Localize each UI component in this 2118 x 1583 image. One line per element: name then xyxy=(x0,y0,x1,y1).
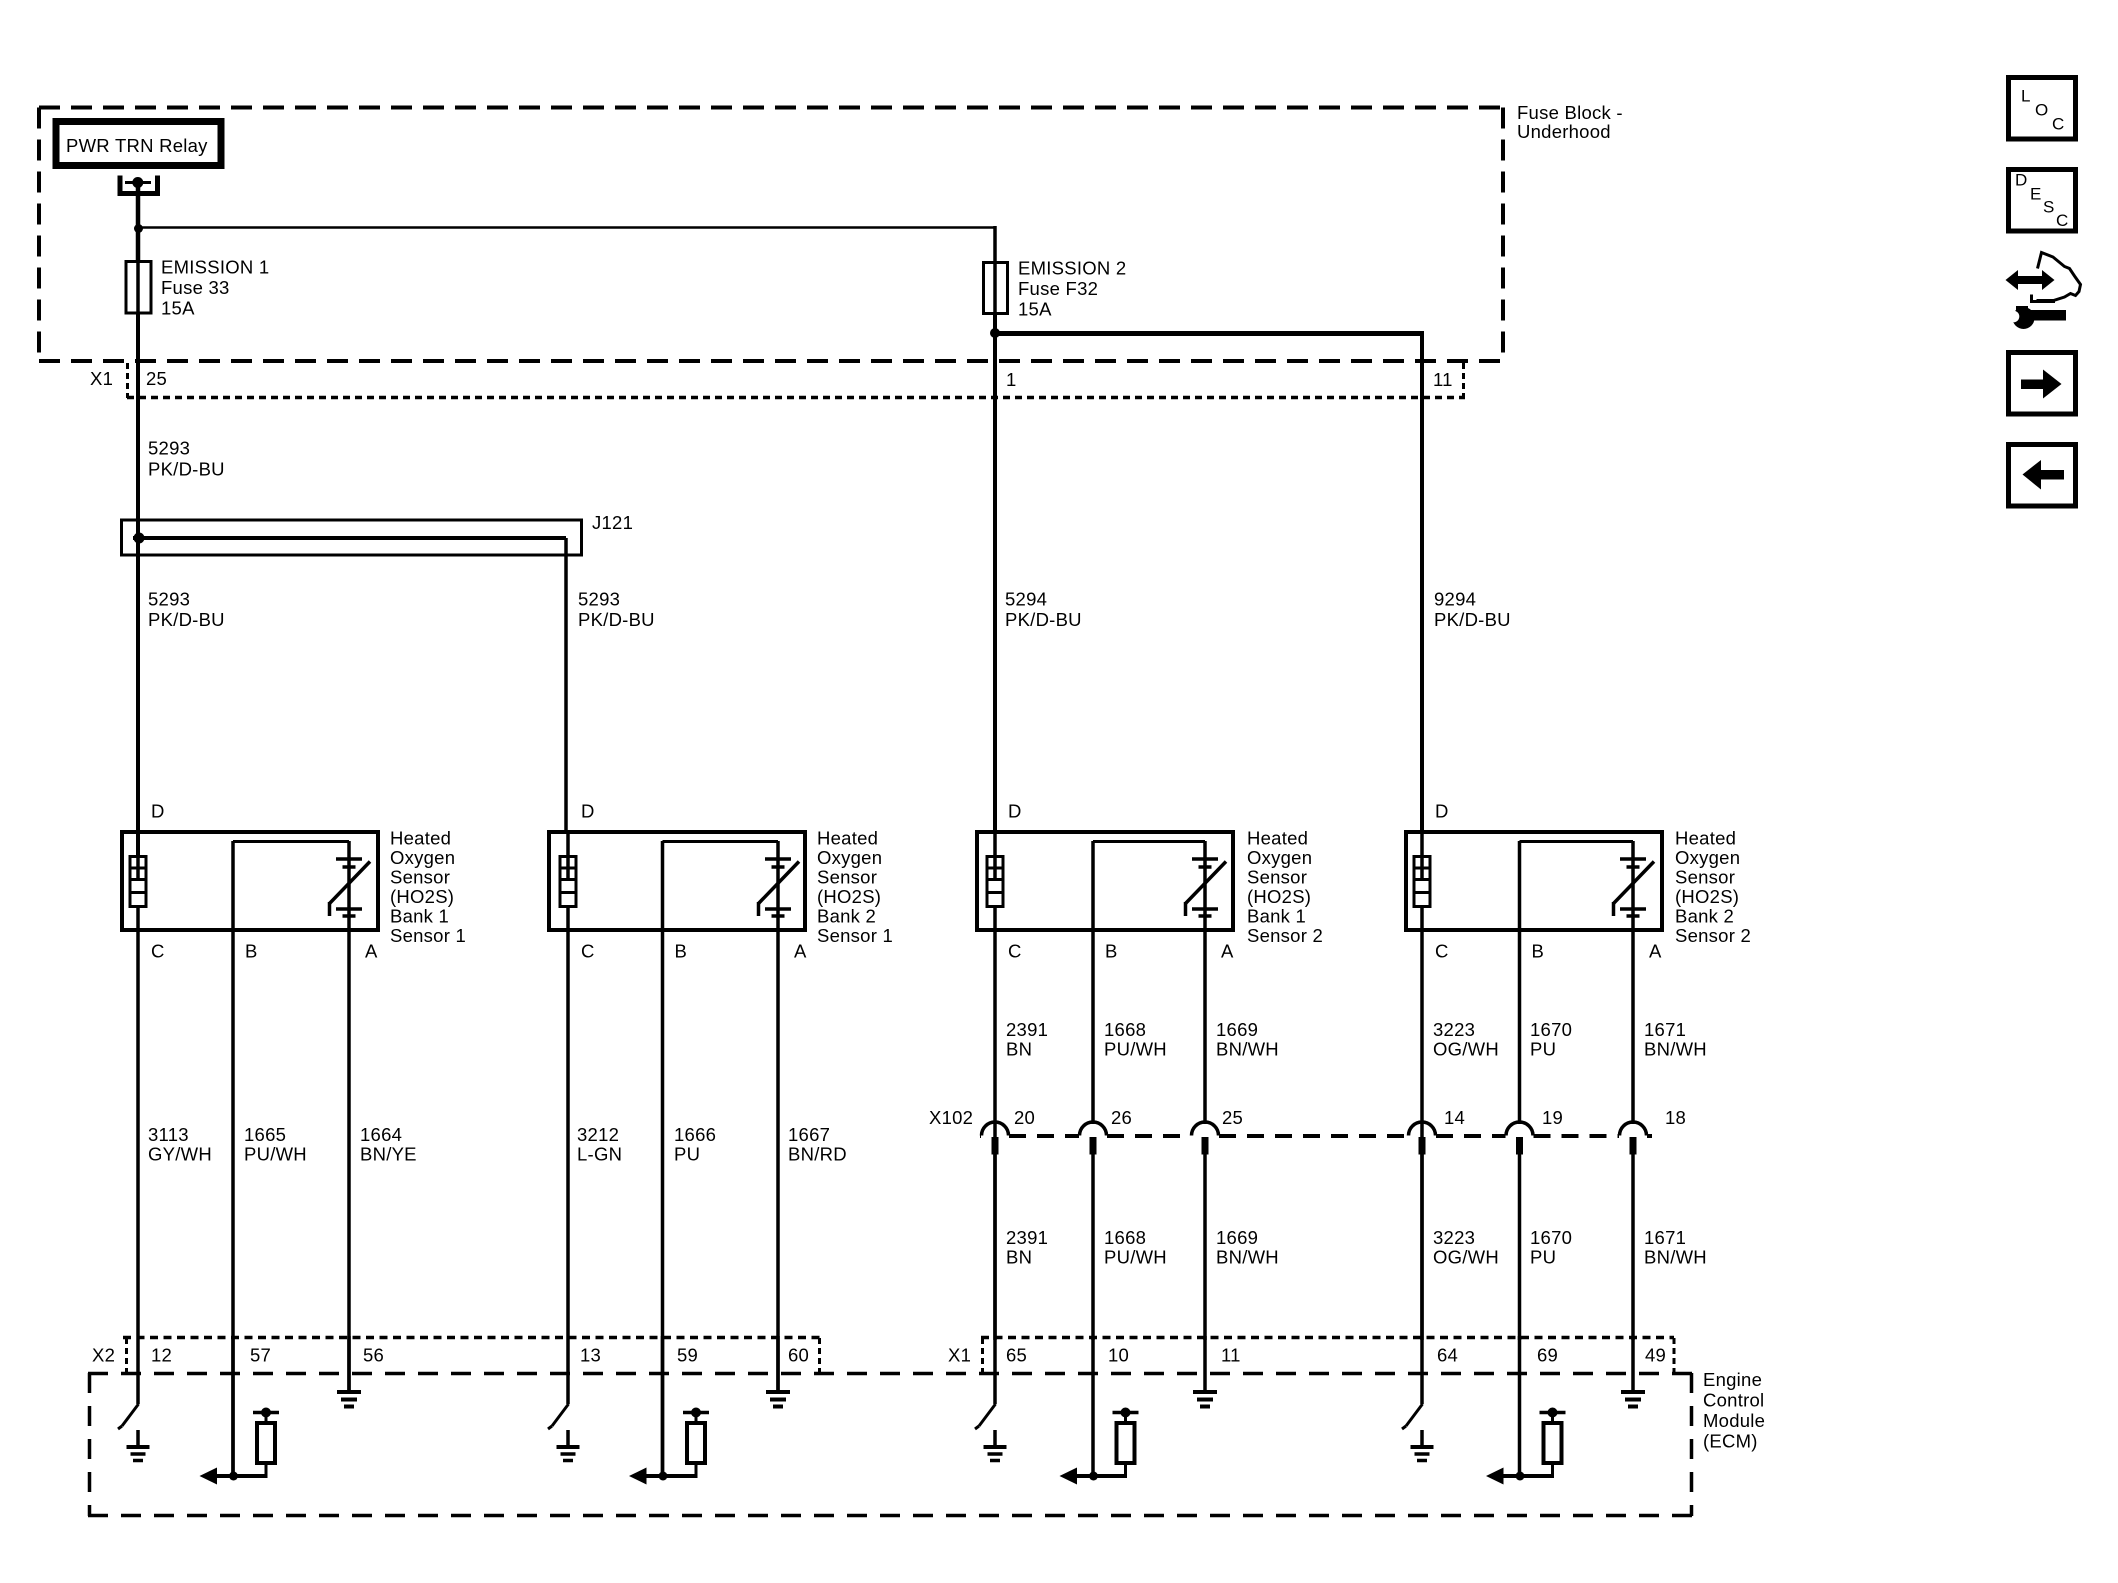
wire to comparator with arrow xyxy=(1503,1474,1553,1478)
svg-text:57: 57 xyxy=(250,1345,271,1366)
svg-text:5293: 5293 xyxy=(578,589,620,610)
heater element xyxy=(1414,857,1430,907)
ground (internal) xyxy=(566,1430,570,1447)
svg-text:2391: 2391 xyxy=(1006,1227,1048,1248)
svg-text:D: D xyxy=(581,801,595,822)
wire B2S1 pin A to ECM 60 xyxy=(776,932,780,1391)
svg-text:5294: 5294 xyxy=(1005,589,1047,610)
svg-text:Oxygen: Oxygen xyxy=(1675,847,1740,868)
svg-text:20: 20 xyxy=(1014,1107,1035,1128)
svg-text:L-GN: L-GN xyxy=(577,1144,622,1165)
svg-text:Sensor 2: Sensor 2 xyxy=(1247,925,1323,946)
svg-text:3212: 3212 xyxy=(577,1124,619,1145)
svg-text:Sensor 1: Sensor 1 xyxy=(817,925,893,946)
wire B1S1 pin B to ECM 57 xyxy=(231,932,235,1477)
svg-text:D: D xyxy=(2015,171,2028,190)
svg-text:PU/WH: PU/WH xyxy=(1104,1247,1167,1268)
svg-text:26: 26 xyxy=(1111,1107,1132,1128)
svg-text:O: O xyxy=(2035,101,2048,120)
svg-text:Sensor 2: Sensor 2 xyxy=(1675,925,1751,946)
fuse EMISSION 2 Fuse F32 15A xyxy=(984,263,1008,314)
wire feeder down at pin 11 xyxy=(1420,331,1424,832)
svg-text:GY/WH: GY/WH xyxy=(148,1144,212,1165)
svg-text:9294: 9294 xyxy=(1434,589,1476,610)
svg-text:18: 18 xyxy=(1665,1107,1686,1128)
icon vehicle outline xyxy=(2037,253,2081,301)
svg-text:49: 49 xyxy=(1645,1345,1666,1366)
connector X1 ECM strip xyxy=(981,1336,1674,1340)
svg-text:Oxygen: Oxygen xyxy=(817,847,882,868)
svg-text:56: 56 xyxy=(363,1345,384,1366)
ground (internal) at x=1205 xyxy=(1203,1336,1207,1392)
icon LOC box xyxy=(2009,78,2076,140)
connector X102 pin 19 xyxy=(1506,1122,1533,1136)
sensor cell (variable battery) xyxy=(1091,841,1095,932)
svg-text:Oxygen: Oxygen xyxy=(1247,847,1312,868)
ground (internal) at x=1633 xyxy=(1631,1336,1635,1392)
svg-text:1671: 1671 xyxy=(1644,1019,1686,1040)
splice J121 xyxy=(122,520,582,555)
svg-text:B: B xyxy=(675,941,688,962)
wire to comparator with arrow xyxy=(1076,1474,1126,1478)
svg-text:C: C xyxy=(2056,211,2069,230)
relay PWR TRN Relay box xyxy=(56,122,221,166)
svg-text:Fuse Block -: Fuse Block - xyxy=(1517,102,1623,123)
svg-text:1670: 1670 xyxy=(1530,1019,1572,1040)
svg-text:A: A xyxy=(1221,941,1234,962)
icon arrow left box xyxy=(2009,445,2076,507)
icon DESC box xyxy=(2009,170,2076,232)
svg-text:1664: 1664 xyxy=(360,1124,402,1145)
svg-text:C: C xyxy=(151,941,165,962)
svg-text:C: C xyxy=(581,941,595,962)
relay contact symbol xyxy=(120,176,158,194)
wire fuse F32 to pin 11 (horizontal feeder) xyxy=(993,331,1422,336)
variable diagonal arrow xyxy=(1614,862,1655,904)
svg-text:Bank 2: Bank 2 xyxy=(1675,906,1734,927)
ground (internal) xyxy=(993,1430,997,1447)
Engine Control Module (ECM) box xyxy=(88,1372,1693,1376)
svg-text:1669: 1669 xyxy=(1216,1019,1258,1040)
connector X2 ECM strip xyxy=(123,1336,820,1340)
svg-text:A: A xyxy=(794,941,807,962)
svg-text:1666: 1666 xyxy=(674,1124,716,1145)
svg-text:60: 60 xyxy=(788,1345,809,1366)
svg-text:PK/D-BU: PK/D-BU xyxy=(1434,609,1511,630)
svg-text:C: C xyxy=(1435,941,1449,962)
svg-text:Sensor 1: Sensor 1 xyxy=(390,925,466,946)
svg-text:Fuse 33: Fuse 33 xyxy=(161,277,230,298)
Fuse Block - Underhood box xyxy=(39,106,1503,110)
resistor pull-up at x=1552.5 xyxy=(1540,1411,1566,1415)
svg-text:X102: X102 xyxy=(929,1107,973,1128)
svg-text:BN/YE: BN/YE xyxy=(360,1144,417,1165)
HO2S sensor box Bank 1 Sensor 1 xyxy=(122,832,378,930)
svg-text:65: 65 xyxy=(1006,1345,1027,1366)
wire B2S2 pin B to X102 xyxy=(1518,932,1522,1124)
svg-text:69: 69 xyxy=(1537,1345,1558,1366)
svg-text:14: 14 xyxy=(1444,1107,1465,1128)
svg-text:PU/WH: PU/WH xyxy=(1104,1039,1167,1060)
variable diagonal arrow xyxy=(330,862,371,904)
resistor pull-up at x=696 xyxy=(683,1411,709,1415)
svg-text:C: C xyxy=(1008,941,1022,962)
svg-text:EMISSION 2: EMISSION 2 xyxy=(1018,258,1126,279)
resistor pull-up at x=1125.5 xyxy=(1113,1411,1139,1415)
svg-text:Heated: Heated xyxy=(817,828,878,849)
svg-text:(HO2S): (HO2S) xyxy=(1675,886,1739,907)
svg-text:Sensor: Sensor xyxy=(1247,867,1307,888)
ground (internal) xyxy=(1420,1430,1424,1447)
svg-text:PU: PU xyxy=(674,1144,700,1165)
svg-text:PK/D-BU: PK/D-BU xyxy=(578,609,655,630)
wire B1S2 pin B to X102 xyxy=(1091,932,1095,1124)
svg-text:S: S xyxy=(2043,198,2055,217)
svg-text:Heated: Heated xyxy=(390,828,451,849)
HO2S sensor box Bank 1 Sensor 2 xyxy=(977,832,1233,930)
svg-text:13: 13 xyxy=(580,1345,601,1366)
svg-text:15A: 15A xyxy=(1018,299,1052,320)
svg-text:1665: 1665 xyxy=(244,1124,286,1145)
heater element xyxy=(560,857,576,907)
ground (internal) at x=778 xyxy=(776,1336,780,1392)
svg-text:PU: PU xyxy=(1530,1247,1556,1268)
svg-text:BN: BN xyxy=(1006,1039,1032,1060)
svg-text:(HO2S): (HO2S) xyxy=(390,886,454,907)
connector X102 pin 20 xyxy=(982,1122,1009,1136)
variable diagonal arrow xyxy=(759,862,800,904)
heater element xyxy=(130,857,146,907)
connector X1 fuse block strip xyxy=(127,396,1465,400)
svg-text:E: E xyxy=(2030,185,2042,204)
svg-text:Sensor: Sensor xyxy=(817,867,877,888)
svg-text:BN: BN xyxy=(1006,1247,1032,1268)
fuse EMISSION 1 Fuse 33 15A xyxy=(126,262,151,314)
svg-text:5293: 5293 xyxy=(148,438,190,459)
svg-text:1667: 1667 xyxy=(788,1124,830,1145)
svg-text:10: 10 xyxy=(1108,1345,1129,1366)
svg-text:Engine: Engine xyxy=(1703,1369,1762,1390)
svg-text:BN/WH: BN/WH xyxy=(1216,1247,1279,1268)
svg-text:PK/D-BU: PK/D-BU xyxy=(1005,609,1082,630)
svg-text:12: 12 xyxy=(151,1345,172,1366)
svg-text:PU/WH: PU/WH xyxy=(244,1144,307,1165)
svg-text:PWR TRN Relay: PWR TRN Relay xyxy=(66,135,208,156)
svg-text:Sensor: Sensor xyxy=(1675,867,1735,888)
icon vehicle double-arrow xyxy=(2014,276,2046,284)
svg-text:Module: Module xyxy=(1703,1410,1765,1431)
svg-text:1669: 1669 xyxy=(1216,1227,1258,1248)
wire junction to EMISSION 2 fuse (horizontal) xyxy=(138,226,995,229)
svg-text:11: 11 xyxy=(1433,369,1453,390)
svg-text:X2: X2 xyxy=(92,1345,115,1366)
switch (ECM driver) at x=1422 xyxy=(1420,1340,1424,1404)
svg-text:B: B xyxy=(245,941,258,962)
svg-text:25: 25 xyxy=(1222,1107,1243,1128)
svg-text:5293: 5293 xyxy=(148,589,190,610)
svg-text:3113: 3113 xyxy=(148,1124,189,1145)
svg-text:BN/RD: BN/RD xyxy=(788,1144,847,1165)
svg-text:Heated: Heated xyxy=(1675,828,1736,849)
icon arrow right box xyxy=(2009,353,2076,415)
svg-text:(ECM): (ECM) xyxy=(1703,1431,1758,1452)
svg-text:Bank 2: Bank 2 xyxy=(817,906,876,927)
svg-text:C: C xyxy=(2052,115,2065,134)
svg-text:D: D xyxy=(1435,801,1449,822)
wire B1S1 pin A to ECM 56 xyxy=(347,932,351,1391)
svg-text:D: D xyxy=(151,801,165,822)
svg-text:1: 1 xyxy=(1006,369,1017,390)
svg-text:11: 11 xyxy=(1221,1345,1241,1366)
svg-text:Control: Control xyxy=(1703,1390,1764,1411)
svg-text:1668: 1668 xyxy=(1104,1227,1146,1248)
svg-text:59: 59 xyxy=(677,1345,698,1366)
wire relay to junction xyxy=(136,183,141,262)
svg-text:1670: 1670 xyxy=(1530,1227,1572,1248)
variable diagonal arrow xyxy=(1186,862,1227,904)
svg-text:A: A xyxy=(365,941,378,962)
svg-text:BN/WH: BN/WH xyxy=(1216,1039,1279,1060)
svg-text:PK/D-BU: PK/D-BU xyxy=(148,459,225,480)
sensor cell (variable battery) xyxy=(1518,841,1522,932)
svg-text:1668: 1668 xyxy=(1104,1019,1146,1040)
connector X102 pin 26 xyxy=(1080,1122,1107,1136)
svg-text:64: 64 xyxy=(1437,1345,1458,1366)
connector X102 pin 25 xyxy=(1192,1122,1219,1136)
HO2S sensor box Bank 2 Sensor 2 xyxy=(1406,832,1662,930)
heater element xyxy=(987,857,1003,907)
svg-text:X1: X1 xyxy=(90,368,113,389)
ground (internal) at x=349 xyxy=(347,1336,351,1392)
wire B2S2 pin A to X102 xyxy=(1631,932,1635,1124)
wire B1S2 pin A to X102 xyxy=(1203,932,1207,1124)
svg-text:PU: PU xyxy=(1530,1039,1556,1060)
switch (ECM driver) at x=995 xyxy=(993,1340,997,1404)
resistor pull-up at x=266 xyxy=(253,1411,279,1415)
svg-text:A: A xyxy=(1649,941,1662,962)
svg-text:L: L xyxy=(2021,87,2031,106)
svg-text:BN/WH: BN/WH xyxy=(1644,1247,1707,1268)
sensor cell (variable battery) xyxy=(661,841,665,932)
svg-text:OG/WH: OG/WH xyxy=(1433,1039,1499,1060)
ground (internal) xyxy=(136,1430,140,1447)
svg-text:19: 19 xyxy=(1542,1107,1563,1128)
icon wrench xyxy=(2026,310,2066,321)
svg-text:B: B xyxy=(1105,941,1118,962)
svg-text:X1: X1 xyxy=(948,1345,971,1366)
wire fuse 33 to splice J121 (circuit 5293) xyxy=(136,313,140,857)
svg-text:OG/WH: OG/WH xyxy=(1433,1247,1499,1268)
HO2S sensor box Bank 2 Sensor 1 xyxy=(549,832,805,930)
svg-text:(HO2S): (HO2S) xyxy=(817,886,881,907)
svg-text:3223: 3223 xyxy=(1433,1019,1475,1040)
svg-text:15A: 15A xyxy=(161,298,195,319)
svg-text:3223: 3223 xyxy=(1433,1227,1475,1248)
svg-text:Heated: Heated xyxy=(1247,828,1308,849)
wire B2S1 pin B to ECM 59 xyxy=(661,932,665,1477)
svg-text:Sensor: Sensor xyxy=(390,867,450,888)
svg-text:(HO2S): (HO2S) xyxy=(1247,886,1311,907)
wire to comparator with arrow xyxy=(216,1474,266,1478)
node junction below relay xyxy=(134,224,143,233)
svg-text:Fuse F32: Fuse F32 xyxy=(1018,278,1098,299)
svg-text:Bank 1: Bank 1 xyxy=(1247,906,1306,927)
svg-text:2391: 2391 xyxy=(1006,1019,1048,1040)
connector X102 pin 18 xyxy=(1620,1122,1647,1136)
connector X102 pin 14 xyxy=(1409,1122,1436,1136)
svg-text:D: D xyxy=(1008,801,1022,822)
svg-text:PK/D-BU: PK/D-BU xyxy=(148,609,225,630)
svg-text:B: B xyxy=(1532,941,1545,962)
switch (ECM driver) at x=568 xyxy=(566,1340,570,1404)
sensor cell (variable battery) xyxy=(231,841,235,932)
svg-text:EMISSION 1: EMISSION 1 xyxy=(161,257,269,278)
svg-text:Oxygen: Oxygen xyxy=(390,847,455,868)
svg-text:Underhood: Underhood xyxy=(1517,121,1611,142)
svg-text:25: 25 xyxy=(146,368,167,389)
node junction below fuse F32 xyxy=(990,328,1000,338)
svg-text:J121: J121 xyxy=(592,512,633,533)
svg-text:1671: 1671 xyxy=(1644,1227,1686,1248)
wire to comparator with arrow xyxy=(646,1474,697,1478)
switch (ECM driver) at x=138 xyxy=(136,1340,140,1404)
svg-text:BN/WH: BN/WH xyxy=(1644,1039,1707,1060)
svg-text:Bank 1: Bank 1 xyxy=(390,906,449,927)
